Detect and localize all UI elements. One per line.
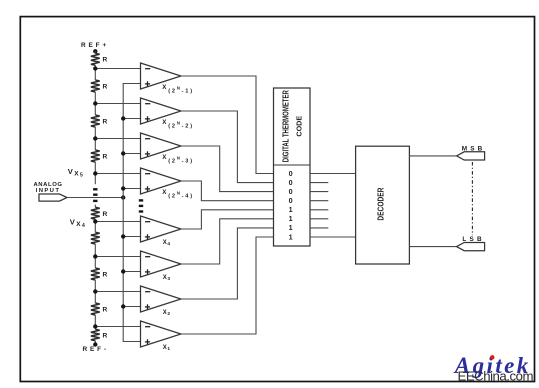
svg-text:X3: X3 — [163, 275, 171, 282]
watermark logo — [453, 353, 534, 383]
svg-text:R: R — [103, 333, 108, 340]
svg-text:EEChina.com: EEChina.com — [458, 368, 534, 383]
wire comparator 7 output to thermometer code bit 7 — [181, 228, 274, 299]
svg-text:X1: X1 — [163, 345, 171, 352]
node VX4 — [70, 217, 86, 229]
wire decoder to LSB — [409, 246, 456, 248]
svg-text:1: 1 — [289, 232, 293, 241]
op-amp comparator X(2^N-3) — [141, 133, 194, 165]
wire ladder tap 7 to comparator minus input — [93, 289, 140, 293]
wire thermometer code row 3 stub — [310, 191, 328, 193]
svg-text:0: 0 — [289, 178, 293, 187]
svg-text:0: 0 — [289, 169, 293, 178]
node thermometer bit 0 — [289, 187, 293, 196]
wire ladder tap 2 to comparator minus input — [93, 101, 140, 105]
op-amp comparator X2 — [141, 286, 182, 317]
resistor R7 (R) — [91, 268, 108, 280]
svg-text:DECODER: DECODER — [376, 188, 385, 221]
node LSB output connector — [457, 236, 485, 251]
resistor R2 (R) — [91, 80, 108, 92]
wire ladder tap 6 to comparator minus input — [93, 254, 140, 258]
svg-text:R: R — [103, 84, 108, 91]
op-amp comparator X(2^N-1) — [141, 63, 194, 95]
resistor R6 (R) — [91, 232, 100, 244]
wire ladder tap 1 to comparator minus input — [93, 66, 140, 70]
wire thermometer code row 2 stub — [310, 182, 328, 184]
node thermometer bit 1 — [289, 214, 293, 223]
svg-text:R: R — [103, 119, 108, 126]
wire comparator 2 output to thermometer code bit 2 — [181, 111, 274, 183]
svg-text:X4: X4 — [163, 240, 171, 247]
wire analog input bus vertical — [123, 84, 140, 342]
wire ladder tap 5 to comparator minus input — [93, 219, 140, 223]
wire bus to comparator 7 plus input — [121, 304, 141, 308]
node thermometer bit 0 — [289, 169, 293, 178]
node thermometer bit 1 — [289, 223, 293, 232]
wire analog input to bus — [67, 195, 125, 199]
node REF- terminal — [83, 342, 110, 353]
wire comparator 3 output to thermometer code bit 3 — [181, 146, 274, 192]
analog input connector — [33, 182, 67, 201]
decoder box — [356, 146, 410, 264]
wire comparator 1 output to thermometer code bit 1 — [181, 76, 274, 174]
svg-text:0: 0 — [289, 187, 293, 196]
node comparator column ellipsis (omitted comparators) — [139, 199, 143, 213]
svg-text:R: R — [103, 272, 108, 279]
node thermometer bit 1 — [289, 232, 293, 241]
wire ladder tap 4 to comparator minus input — [93, 171, 140, 175]
svg-text:LSB: LSB — [462, 236, 484, 243]
wire thermometer code row 5 stub — [310, 209, 328, 211]
node VX5 — [68, 167, 84, 179]
resistor R9 (R) — [91, 329, 108, 341]
svg-text:1: 1 — [289, 205, 293, 214]
resistor R8 (R) — [91, 303, 108, 315]
svg-text:CODE: CODE — [294, 116, 303, 137]
wire bus to comparator 2 plus input — [121, 116, 141, 120]
svg-text:R: R — [103, 57, 108, 64]
resistor R4 (R) — [91, 150, 108, 162]
svg-text:DIGITAL THERMOMETER: DIGITAL THERMOMETER — [280, 90, 290, 162]
wire bus to comparator 3 plus input — [121, 151, 141, 155]
svg-text:R: R — [103, 307, 108, 314]
op-amp comparator X(2^N-2) — [141, 98, 194, 130]
svg-text:R: R — [103, 211, 108, 218]
wire bus to comparator 6 plus input — [121, 269, 141, 273]
node thermometer bit 0 — [289, 178, 293, 187]
svg-text:INPUT: INPUT — [36, 188, 61, 194]
wire bus to comparator 5 plus input — [121, 234, 141, 238]
op-amp comparator X1 — [141, 321, 182, 352]
svg-text:REF-: REF- — [83, 346, 110, 353]
svg-text:0: 0 — [289, 196, 293, 205]
resistor R5 (R) — [91, 207, 108, 219]
wire bus to comparator 4 plus input — [121, 186, 141, 190]
svg-text:R: R — [103, 154, 108, 161]
digital thermometer code box — [274, 88, 311, 246]
wire comparator 6 output to thermometer code bit 6 — [181, 219, 274, 264]
node thermometer bit 1 — [289, 205, 293, 214]
wire MSB-LSB dashed bus indicator — [471, 162, 473, 235]
node REF+ terminal — [81, 42, 109, 54]
wire ladder tap 3 to comparator minus input — [93, 136, 140, 140]
wire thermometer code row 4 stub — [310, 200, 328, 202]
wire thermometer code row 8 to decoder — [310, 236, 356, 238]
node thermometer bit 0 — [289, 196, 293, 205]
resistor R3 (R) — [91, 115, 108, 127]
svg-text:1: 1 — [289, 214, 293, 223]
node ladder ellipsis (omitted rungs) — [93, 188, 97, 202]
wire thermometer code row 6 stub — [310, 218, 328, 220]
wire comparator 4 output to thermometer code bit 4 — [181, 181, 274, 201]
op-amp comparator X4 — [141, 216, 182, 247]
svg-text:1: 1 — [289, 223, 293, 232]
op-amp comparator X(2^N-4) — [141, 168, 194, 200]
wire ladder tap 8 to comparator minus input — [93, 324, 140, 328]
wire thermometer code row 7 stub — [310, 227, 328, 229]
wire comparator 8 output to thermometer code bit 8 — [181, 237, 274, 334]
wire reference ladder vertical segments — [94, 51, 96, 344]
wire comparator 5 output to thermometer code bit 5 — [181, 210, 274, 229]
op-amp comparator X3 — [141, 251, 182, 282]
wire thermometer code row 1 to decoder — [310, 173, 356, 175]
resistor R1 (R) — [91, 53, 108, 65]
node MSB output connector — [457, 145, 486, 160]
svg-text:X2: X2 — [163, 310, 171, 317]
svg-text:REF+: REF+ — [81, 42, 109, 49]
wire decoder to MSB — [409, 155, 456, 157]
